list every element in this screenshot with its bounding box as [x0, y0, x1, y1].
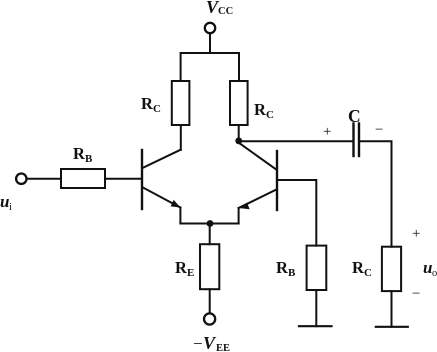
label + (output) [412, 226, 420, 242]
node emitter junction [207, 220, 214, 227]
label Vcc [206, 0, 233, 17]
wire RE to -Vee terminal [209, 289, 211, 313]
svg-text:o: o [432, 268, 437, 279]
input terminal ui [16, 174, 26, 184]
terminal Vcc [205, 23, 215, 33]
svg-text:B: B [85, 153, 93, 165]
label RC3 [352, 258, 372, 279]
label - (cap right) [375, 122, 383, 138]
svg-text:C: C [266, 109, 274, 121]
label ui [0, 192, 12, 213]
svg-text:C: C [348, 106, 361, 126]
svg-text:−: − [375, 122, 383, 138]
label -Vee [193, 333, 230, 352]
wire ui to RB1 [27, 178, 61, 180]
resistor RE [200, 244, 219, 289]
transistor Q1 (left, NPN) [142, 150, 181, 209]
label RE [175, 258, 194, 279]
wire Q1 emitter down [179, 208, 181, 224]
label C [348, 106, 361, 126]
ground (RC3) [376, 326, 408, 328]
svg-text:+: + [323, 124, 331, 140]
ground (RB2) [299, 325, 332, 327]
resistor RC3 (load) [382, 247, 401, 291]
svg-text:i: i [9, 202, 12, 213]
wire Q2 emitter down [238, 208, 240, 224]
resistor RB1 (input base) [61, 169, 105, 188]
transistor Q2 (right, NPN) [239, 144, 277, 210]
svg-text:−: − [193, 334, 203, 352]
wire common emitter bus [180, 223, 238, 225]
wire node to RE [209, 224, 211, 245]
wire capacitor to RC3 [360, 141, 391, 247]
wire RB2 to ground [315, 290, 317, 326]
svg-text:−: − [412, 286, 420, 302]
wire Vcc to rail [209, 34, 211, 53]
wire top rail [181, 53, 239, 81]
wire RC3 to ground [391, 291, 393, 327]
svg-text:C: C [153, 103, 161, 115]
wire RC1 bottom to Q1 collector [180, 125, 182, 150]
svg-text:E: E [187, 267, 194, 279]
svg-text:CC: CC [218, 6, 233, 17]
terminal -Vee [204, 313, 215, 324]
resistor RC1 (left collector) [172, 81, 190, 125]
svg-text:+: + [412, 226, 420, 242]
node collector junction [235, 137, 242, 144]
label + (cap left) [323, 124, 331, 140]
wire RB1 to Q1 base [105, 178, 141, 180]
svg-text:B: B [288, 267, 296, 279]
label RB1 [73, 144, 93, 165]
svg-text:EE: EE [216, 343, 230, 352]
wire RC2 bottom to node [238, 125, 240, 139]
svg-text:C: C [364, 267, 372, 279]
wire node to capacitor [241, 140, 352, 142]
resistor RB2 (right base) [307, 246, 327, 290]
label - (output) [412, 286, 420, 302]
resistor RC2 (right collector) [230, 81, 248, 125]
wire Q2 base to RB2 [278, 180, 316, 246]
label RB2 [276, 258, 296, 279]
label RC2 [254, 100, 274, 121]
label RC1 [141, 94, 161, 115]
svg-text:V: V [203, 333, 217, 352]
capacitor C [354, 124, 360, 157]
label uo [423, 258, 437, 279]
